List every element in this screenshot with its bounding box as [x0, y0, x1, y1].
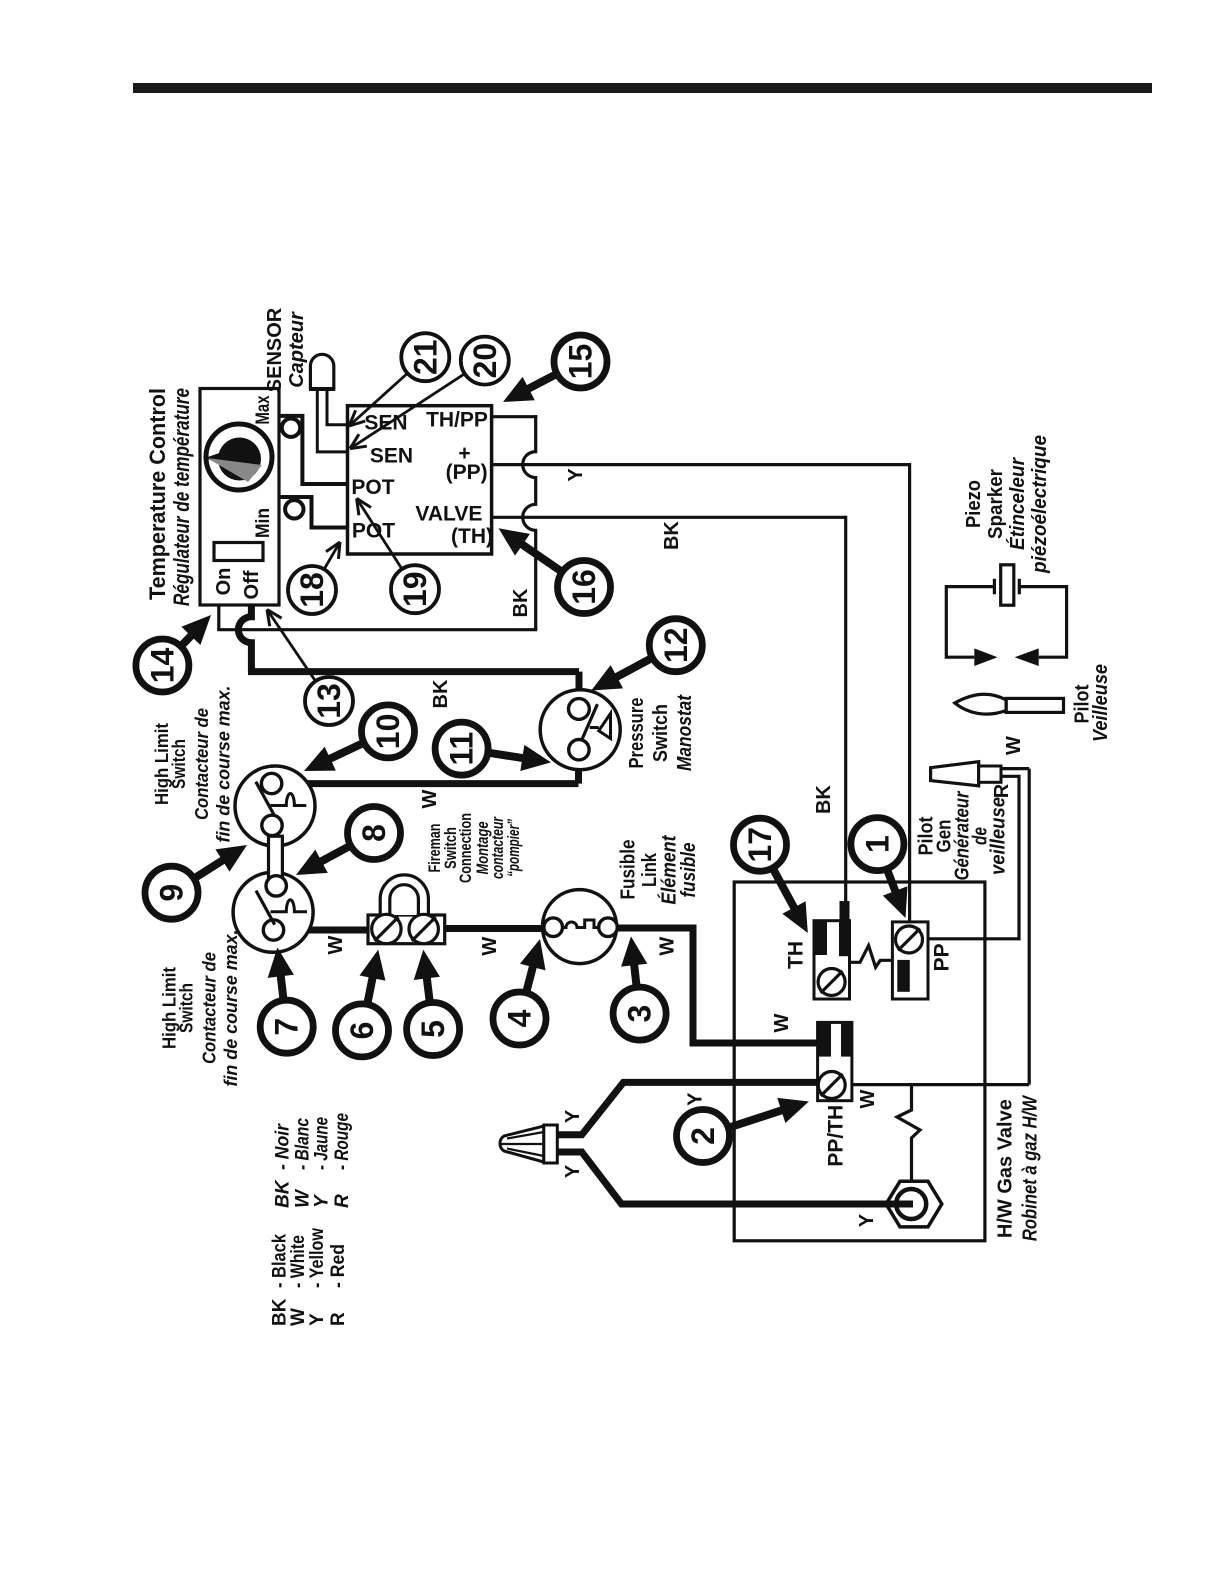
svg-text:PP/TH: PP/TH	[825, 1105, 848, 1167]
svg-text:Fusible: Fusible	[618, 840, 640, 900]
svg-text:17: 17	[742, 827, 778, 863]
svg-text:14: 14	[144, 648, 180, 684]
svg-text:9: 9	[154, 884, 190, 902]
svg-text:BK: BK	[661, 521, 683, 550]
svg-text:Robinet à gaz H/W: Robinet à gaz H/W	[1020, 1094, 1042, 1241]
svg-text:Régulateur de température: Régulateur de température	[169, 388, 194, 606]
svg-text:18: 18	[294, 572, 330, 608]
svg-text:Manostat: Manostat	[674, 694, 696, 771]
svg-text:Y: Y	[856, 1213, 878, 1227]
svg-text:VALVE: VALVE	[415, 502, 482, 525]
svg-text:Contacteur de: Contacteur de	[200, 952, 220, 1064]
svg-text:BK: BK	[510, 588, 532, 617]
svg-text:Veilleuse: Veilleuse	[1090, 664, 1112, 742]
svg-text:veilleuse: veilleuse	[988, 797, 1010, 875]
svg-text:Max: Max	[253, 395, 274, 424]
svg-text:Temperature Control: Temperature Control	[145, 388, 170, 600]
svg-text:Switch: Switch	[650, 704, 672, 762]
svg-text:Sparker: Sparker	[985, 469, 1007, 539]
svg-text:13: 13	[311, 683, 347, 719]
svg-text:POT: POT	[351, 476, 394, 499]
svg-text:R: R	[328, 1312, 349, 1326]
svg-text:SEN: SEN	[370, 445, 413, 468]
svg-text:19: 19	[397, 571, 433, 607]
svg-text:R: R	[332, 1194, 353, 1208]
svg-text:“pompier”: “pompier”	[504, 819, 523, 877]
svg-text:W: W	[288, 1308, 309, 1326]
svg-text:Étinceleur: Étinceleur	[1006, 457, 1029, 550]
svg-text:11: 11	[444, 732, 480, 766]
svg-text:SENSOR: SENSOR	[264, 307, 286, 392]
svg-text:Switch: Switch	[177, 983, 197, 1033]
svg-text:- Blanc: - Blanc	[293, 1118, 314, 1170]
svg-text:TH/PP: TH/PP	[426, 409, 488, 432]
svg-text:3: 3	[622, 1005, 658, 1023]
svg-text:Y: Y	[307, 1313, 328, 1326]
svg-text:W: W	[1003, 736, 1025, 755]
svg-text:W: W	[771, 1013, 793, 1032]
svg-text:- Yellow: - Yellow	[307, 1228, 328, 1288]
svg-text:Off: Off	[241, 570, 263, 599]
svg-text:6: 6	[344, 1022, 380, 1040]
svg-text:H/W Gas Valve: H/W Gas Valve	[995, 1099, 1017, 1238]
svg-text:BK: BK	[273, 1179, 294, 1208]
svg-text:W: W	[857, 1089, 879, 1108]
svg-text:15: 15	[563, 344, 599, 380]
svg-text:- White: - White	[288, 1235, 309, 1288]
svg-text:Y: Y	[562, 1164, 584, 1178]
svg-text:Switch: Switch	[169, 739, 189, 789]
svg-text:R: R	[991, 783, 1013, 798]
svg-text:7: 7	[269, 1018, 305, 1036]
svg-text:BK: BK	[430, 679, 452, 708]
svg-text:(TH): (TH)	[451, 525, 493, 548]
svg-text:16: 16	[566, 569, 602, 605]
svg-text:4: 4	[502, 1009, 538, 1027]
svg-text:fin de course max.: fin de course max.	[221, 930, 241, 1087]
svg-text:piézoélectrique: piézoélectrique	[1029, 435, 1051, 574]
svg-text:- Jaune: - Jaune	[312, 1117, 333, 1170]
svg-text:- Rouge: - Rouge	[332, 1113, 353, 1170]
svg-text:W: W	[657, 937, 679, 956]
svg-text:5: 5	[415, 1020, 451, 1038]
svg-text:W: W	[293, 1188, 314, 1208]
svg-text:PP: PP	[930, 943, 953, 971]
svg-text:Élément: Élément	[658, 834, 681, 904]
svg-text:W: W	[325, 935, 347, 954]
svg-text:Y: Y	[685, 1092, 707, 1106]
svg-text:Pressure: Pressure	[626, 698, 648, 769]
svg-text:W: W	[419, 789, 441, 808]
svg-text:10: 10	[370, 714, 406, 750]
svg-text:On: On	[213, 568, 235, 596]
svg-text:Y: Y	[562, 1109, 584, 1123]
svg-text:W: W	[479, 937, 501, 956]
svg-text:(PP): (PP)	[446, 461, 488, 484]
svg-text:Y: Y	[565, 468, 587, 482]
svg-text:1: 1	[859, 835, 895, 853]
svg-text:- Red: - Red	[328, 1244, 349, 1288]
svg-text:Min: Min	[253, 508, 274, 538]
svg-text:12: 12	[658, 627, 694, 663]
svg-text:21: 21	[407, 339, 443, 375]
svg-text:20: 20	[467, 343, 503, 379]
svg-text:TH: TH	[785, 941, 808, 969]
svg-text:fin de course max.: fin de course max.	[214, 686, 234, 843]
svg-text:BK: BK	[813, 785, 835, 814]
svg-text:8: 8	[356, 824, 392, 842]
svg-text:- Noir: - Noir	[273, 1123, 294, 1170]
svg-text:2: 2	[685, 1127, 721, 1145]
svg-text:fusible: fusible	[678, 843, 700, 898]
svg-text:Capteur: Capteur	[286, 311, 308, 388]
svg-text:Contacteur de: Contacteur de	[192, 708, 212, 820]
svg-text:Piezo: Piezo	[963, 480, 985, 528]
